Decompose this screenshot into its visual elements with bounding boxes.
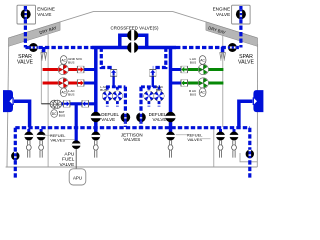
scavenge stub left [42,47,46,52]
svg-text:VALVE: VALVE [216,12,230,17]
wire: left feed riser [94,46,98,136]
leader lines right refuel [176,134,190,136]
wire: refuel valve stubs [29,129,234,134]
float L2 [39,140,44,157]
svg-text:VALVES: VALVES [50,137,65,142]
jettison nozzle right [253,90,263,112]
wire: right jettison nozzle line [239,101,253,127]
refuel valve R2 (closed) [230,132,239,141]
center pump L2 (blue) [112,91,122,101]
wire: APU pump inlet [41,103,50,105]
wire: crossfeed bridge [120,35,147,49]
svg-text:ENGINE: ENGINE [37,7,55,12]
wire: APU to box [75,147,77,169]
scavenge jets right [220,53,222,61]
wire: left jettison valve drop [124,87,127,127]
svg-text:CROSSFEED VALVE(S): CROSSFEED VALVE(S) [111,26,159,31]
crossfeed valve lower (closed) [127,42,138,53]
left override pump discharge arrow [112,76,114,87]
left front spar wall [7,44,9,167]
wire: left jettison nozzle line [14,101,30,127]
wire: right engine feed line [239,6,242,48]
wire: center pump stubs [107,87,159,107]
wing structure outline [8,12,257,38]
wire: right refuel station drop [248,128,251,178]
float CR [168,140,173,157]
rear spar bottom wall [6,166,258,168]
spar valve L (open) [29,43,38,52]
AC ellipse R1 [199,56,206,65]
check valve R fwd (green) [181,66,188,73]
scavenge jets left [41,53,43,61]
wire: refuel/jettison manifold (dashed) [15,126,250,129]
svg-text:BUS: BUS [59,113,65,117]
center tank left wall [47,35,49,168]
svg-text:AC: AC [200,91,205,95]
DC bus ellipse [51,110,58,118]
wire: center feed manifold (solid) [92,46,176,50]
refuel valve L2 (closed) [37,132,46,141]
svg-text:VALVE: VALVE [101,117,115,122]
wire: left boost pump line (red) [43,68,78,71]
svg-text:APU: APU [64,151,74,157]
right override pump discharge arrow [152,76,154,87]
engine valve R (open) [236,9,246,19]
svg-text:VALVE: VALVE [153,117,167,122]
svg-text:VALVE: VALVE [238,60,254,66]
refuel valve L1 (closed) [24,132,33,141]
pump L aft (red) [58,78,68,88]
APU fuel valve (closed) [72,140,81,149]
float R2 [232,140,237,157]
refuel station L [11,152,19,160]
pump R fwd (green) [198,64,208,74]
jettison valve R (open) [136,113,146,123]
scavenge stub right [221,47,225,52]
center pump L1 (blue) [102,91,112,101]
svg-text:BUS: BUS [68,60,74,64]
svg-text:VALVE: VALVE [37,12,51,17]
svg-text:BUS: BUS [190,93,196,97]
wire: APU supply line [60,102,96,105]
svg-text:APU: APU [73,175,82,180]
center tank right wall [213,127,215,167]
check valve L fwd (red) [77,66,84,73]
AC ellipse L1 [60,56,67,65]
pump R aft (green) [198,78,208,88]
wire: right aft boost pump line (green) [187,82,224,85]
center pump R1 (blue) [144,91,154,101]
wire: right feed riser [169,46,173,136]
APU box [69,169,86,185]
right tank rib [222,36,224,128]
APU check valve (blue) [63,100,70,107]
center refuel valve R (closed) [166,132,175,141]
engine valve box left [17,5,36,24]
APU pump 2 [53,100,61,108]
dry bay band left [8,22,60,47]
float CL [93,140,98,157]
svg-text:VALVE: VALVE [17,60,33,66]
svg-text:FUEL: FUEL [62,157,75,163]
svg-text:ENGINE: ENGINE [213,7,231,12]
wire: left engine feed line [24,6,27,48]
svg-text:VALVE: VALVE [60,162,75,168]
defuel valve L (closed) [91,112,101,122]
wire: left boost pump discharge stubs (blue) [84,68,96,71]
svg-text:AC: AC [61,91,66,95]
APU pump 1 [50,100,58,108]
wire: right boost pump line (green) [187,68,224,71]
svg-text:AC: AC [200,58,205,62]
svg-text:DC: DC [52,112,57,116]
wire: right jettison valve drop [139,87,142,127]
refuel station R [246,150,254,158]
left tank rib [40,50,42,104]
svg-text:VALVES: VALVES [187,137,202,142]
center refuel valve L (closed) [91,132,100,141]
AC ellipse R2 [199,88,206,97]
wire: right center pump header [141,85,160,88]
defuel valve R (closed) [165,112,175,122]
wire: APU fuel valve drop [75,104,78,143]
float R1 [218,140,223,157]
wire: left aft boost pump line (red) [43,82,78,85]
dry bay band right [206,22,258,47]
right refuel station corner [240,153,257,162]
wire: right wing feed manifold (dashed) [176,46,241,49]
spar valve R (open) [228,43,237,52]
wire: left center pump hook [101,48,113,68]
float L1 [26,140,31,157]
AC ellipse L2 [60,88,67,97]
svg-text:BUS: BUS [190,60,196,64]
center pump R2 (blue) [154,91,164,101]
wire: right center pump hook [153,48,166,68]
wire: left wing feed manifold (dashed) [25,46,92,49]
crossfeed valve upper (closed) [127,30,138,41]
refuel valve R1 (closed) [216,132,225,141]
check valve L aft (red) [77,80,84,87]
engine valve box right [232,5,251,24]
wire: left center pump header [106,85,125,88]
svg-text:VALVES: VALVES [123,137,140,142]
feed line check valve (blue) [82,100,89,107]
svg-text:BUS: BUS [68,93,74,97]
svg-text:BUS: BUS [156,88,162,92]
wire: right boost pump discharge stubs (blue) [171,68,182,71]
jettison nozzle left [3,90,13,112]
engine valve L (open) [21,9,31,19]
wire: left refuel station drop [14,128,17,178]
svg-text:BUS: BUS [100,88,106,92]
jettison valve L (open) [121,113,131,123]
pump L fwd (red) [58,64,68,74]
svg-text:AC: AC [61,58,66,62]
right front spar wall [256,44,258,167]
leader lines left refuel [43,134,52,136]
check valve R aft (green) [181,80,188,87]
